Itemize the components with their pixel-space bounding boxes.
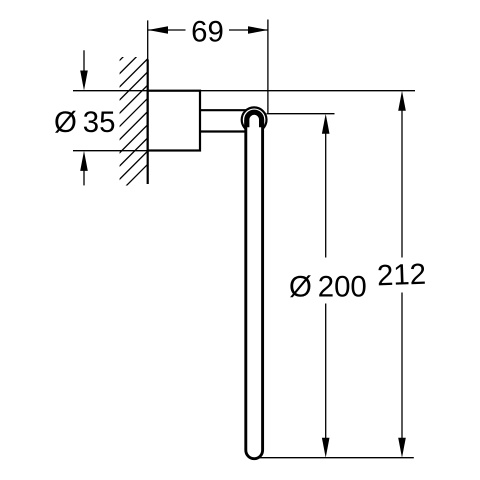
Ø200 top extension line [267,113,335,115]
Ø200 top arrow [322,114,330,134]
69 left arrow [148,26,168,34]
long top extension line (212 / Ø35 upper, at flange top level) [73,90,415,92]
towel ring top arch (thick bend over pivot) [247,112,262,127]
svg-text:Ø 35: Ø 35 [54,106,115,139]
mount flange body [148,91,200,151]
69 right arrow [248,26,268,34]
212 dimension line upper segment [401,109,403,258]
svg-text:69: 69 [191,16,224,49]
Ø35 bottom arrow [80,151,88,171]
bottom extension line (ring bottom level) [256,457,414,459]
212 bottom arrow [398,438,406,458]
Ø200 bottom arrow [322,438,330,458]
wall edge line [147,60,149,185]
Ø200 dimension line lower segment [325,304,327,440]
post top edge [200,109,246,111]
212 dimension line lower segment [401,293,403,440]
pivot disc circle [242,107,267,132]
svg-text:Ø 200: Ø 200 [289,271,367,304]
Ø35 lower extension line (flange bottom level) [73,150,200,152]
69 right extension line [267,20,269,114]
Ø35 top arrow [80,71,88,91]
Ø35 bottom arrow shaft [83,170,85,186]
69 dimension line left segment [148,29,186,31]
212 top arrow [398,91,406,111]
towel ring tube (edge-on stadium outline) [246,120,263,459]
69 dimension line right segment [229,29,268,31]
post bottom edge [200,130,246,132]
Ø200 dimension line upper segment [325,131,327,258]
Ø35 top arrow shaft [83,50,85,72]
svg-text:212: 212 [376,258,426,293]
wall extension line (top, above wall edge) [147,20,149,60]
